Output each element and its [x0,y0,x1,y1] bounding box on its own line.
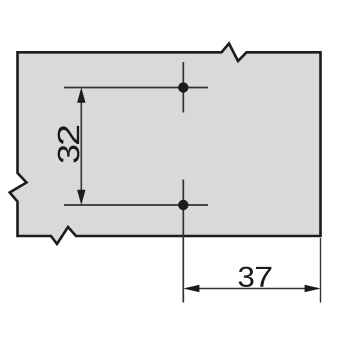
37 dimension line [186,288,318,290]
32 dimension line [80,90,82,203]
arrow down [77,190,85,205]
crosshair vertical upper hole [182,62,184,113]
hole upper [178,82,188,92]
extension line upper hole (32 dim) [64,87,208,89]
arrow right [305,285,321,293]
mounting plate outline with break lines [10,44,321,245]
label 32 (rotated, digit "3" then "2", drawn as glyph outlines) [58,126,80,163]
right extension line of 37 dim [320,238,322,303]
crosshair vertical lower hole + left extension of 37 dim [182,180,184,303]
extension line lower hole (32 dim) [64,204,208,206]
hole lower [178,200,188,210]
arrow left [183,285,199,293]
arrow up [77,88,85,103]
label 37 (glyph outlines) [239,267,272,287]
